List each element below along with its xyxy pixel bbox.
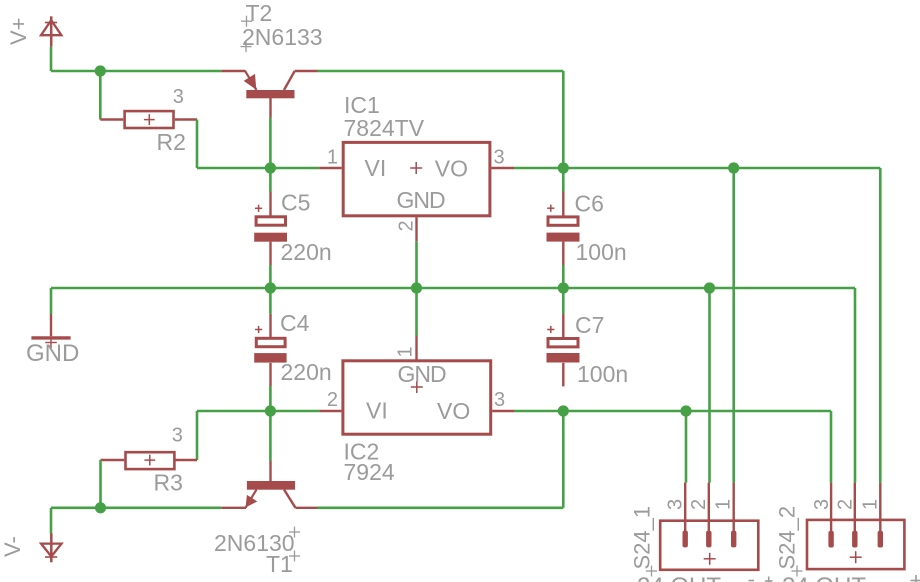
node junction output/C6 xyxy=(558,162,569,173)
svg-text:GND: GND xyxy=(26,340,79,367)
node junction out2/S24_1 pin3 xyxy=(680,405,691,416)
svg-text:3: 3 xyxy=(494,147,505,169)
origin cross S24_1 value xyxy=(749,577,773,582)
wire R2 to IC1 input vertical xyxy=(196,120,199,169)
supply symbol V- xyxy=(41,534,61,563)
svg-text:1: 1 xyxy=(860,499,882,510)
wire down to R2 xyxy=(99,71,102,120)
svg-text:3: 3 xyxy=(811,499,833,510)
wire IC2 input rail xyxy=(197,410,319,413)
svg-text:C6: C6 xyxy=(575,190,604,216)
connector S24_1 xyxy=(660,483,758,570)
integrated circuit IC1 xyxy=(319,142,514,241)
wire T2 base down xyxy=(269,118,272,169)
svg-text:3: 3 xyxy=(494,389,505,411)
resistor R3 xyxy=(101,452,198,469)
wire R3 left down xyxy=(99,460,102,508)
node junction out2/C7-T1 xyxy=(558,405,569,416)
wire gnd to C4 xyxy=(269,288,272,314)
svg-text:7924: 7924 xyxy=(344,459,395,485)
wire to IC1 pin1 xyxy=(197,167,319,170)
svg-text:C4: C4 xyxy=(280,310,310,336)
integrated circuit IC2 xyxy=(319,336,514,434)
svg-text:2N6133: 2N6133 xyxy=(242,24,323,50)
svg-text:220n: 220n xyxy=(281,239,332,265)
wire IC2 output rail xyxy=(514,410,831,413)
connector S24_2 xyxy=(807,483,904,570)
svg-text:C5: C5 xyxy=(281,190,310,216)
node junction V-/R3 xyxy=(95,502,106,513)
wire IC1 output rail xyxy=(514,167,880,170)
svg-text:24 OUT: 24 OUT xyxy=(637,573,721,582)
wire T1 base xyxy=(269,411,272,461)
origin cross S24_2 xyxy=(792,566,803,577)
svg-text:V+: V+ xyxy=(6,17,31,45)
ground symbol GND xyxy=(31,314,70,348)
node junction gnd/C6-C7 xyxy=(558,282,569,293)
node junction V+/R2 xyxy=(95,65,106,76)
wire GND rail xyxy=(51,287,855,290)
svg-text:3: 3 xyxy=(665,499,687,510)
wire gnd down to S24_2 pin2 xyxy=(854,288,857,483)
wire V+ rail to T2 emitter xyxy=(51,70,221,73)
svg-text:V-: V- xyxy=(0,536,25,557)
wire V- rail xyxy=(51,506,221,509)
svg-text:VI: VI xyxy=(365,155,387,181)
wire collector down to output xyxy=(562,71,565,168)
node junction output/S24_1 pin1 xyxy=(728,162,739,173)
transistor T2 xyxy=(221,71,317,118)
wire out2 down to S24_2 pin3 xyxy=(830,411,833,483)
svg-text:S24_2: S24_2 xyxy=(775,506,800,570)
svg-text:GND: GND xyxy=(398,361,447,387)
origin cross T2 name xyxy=(241,16,252,27)
supply symbol V+ xyxy=(41,16,61,47)
origin cross S24_1 xyxy=(646,566,657,577)
svg-text:S24_1: S24_1 xyxy=(630,506,655,570)
node junction IC1 input xyxy=(265,162,276,173)
node junction gnd/C5-C4 xyxy=(265,282,276,293)
svg-text:220n: 220n xyxy=(281,359,332,385)
wire T1 collector vertical xyxy=(562,411,565,508)
transistor T1 xyxy=(221,461,317,508)
wire output down to S24_2 pin1 xyxy=(879,168,882,483)
node junction gnd/S24_1 pin2 xyxy=(704,282,715,293)
wire V+ vertical xyxy=(50,47,53,71)
wire T1 collector horizontal xyxy=(318,506,564,509)
capacitor C6 xyxy=(547,192,580,266)
svg-text:2: 2 xyxy=(835,499,857,510)
svg-text:VO: VO xyxy=(435,156,468,182)
svg-text:1: 1 xyxy=(327,147,338,169)
svg-text:2: 2 xyxy=(396,220,418,231)
svg-text:VI: VI xyxy=(366,398,388,424)
wire gnd down to S24_1 pin2 xyxy=(708,288,711,483)
svg-text:R3: R3 xyxy=(154,470,183,496)
origin cross S24_2 value xyxy=(911,575,920,582)
wire C5 bottom to gnd rail xyxy=(269,265,272,288)
wire T2 collector rail xyxy=(318,70,564,73)
wire gnd to IC2 pin1 xyxy=(415,288,418,336)
svg-text:T2: T2 xyxy=(246,0,273,26)
svg-text:2: 2 xyxy=(688,499,710,510)
svg-text:1: 1 xyxy=(395,346,417,357)
node junction IC2 input xyxy=(265,405,276,416)
wire V- vertical xyxy=(50,508,53,534)
svg-text:3: 3 xyxy=(172,425,183,447)
wire gnd to C7 xyxy=(562,288,565,314)
svg-text:GND: GND xyxy=(397,187,446,213)
origin cross T2 value xyxy=(241,41,252,52)
wire C6 bottom to gnd rail xyxy=(562,265,565,288)
svg-text:100n: 100n xyxy=(577,361,628,387)
wire out2 down to S24_1 pin3 xyxy=(685,411,688,483)
wire IC1 input to C5 xyxy=(269,168,272,192)
svg-text:IC1: IC1 xyxy=(344,92,380,118)
node junction gnd/IC1-IC2 xyxy=(411,282,422,293)
capacitor C4 xyxy=(254,314,286,386)
svg-text:T1: T1 xyxy=(266,551,293,577)
origin cross T1 name xyxy=(289,551,300,562)
wire C4 bottom to IC2 input xyxy=(269,386,272,411)
capacitor C7 xyxy=(547,314,580,386)
svg-text:1: 1 xyxy=(713,499,735,510)
wire C6 top xyxy=(562,168,565,192)
wire IC1 pin2 to gnd xyxy=(415,241,418,288)
svg-text:100n: 100n xyxy=(576,239,627,265)
origin cross T1 value xyxy=(289,527,300,538)
wire output down to S24_1 pin1 xyxy=(732,168,735,483)
capacitor C5 xyxy=(254,192,287,265)
svg-text:C7: C7 xyxy=(575,312,604,338)
svg-text:24 OUT: 24 OUT xyxy=(782,573,866,582)
svg-text:VO: VO xyxy=(437,398,470,424)
svg-text:R2: R2 xyxy=(157,129,186,155)
wire R3 up xyxy=(196,411,199,460)
svg-text:2: 2 xyxy=(327,389,338,411)
wire gnd stub xyxy=(50,288,53,314)
resistor R2 xyxy=(100,111,197,128)
svg-text:7824TV: 7824TV xyxy=(344,115,425,141)
svg-text:3: 3 xyxy=(173,86,184,108)
